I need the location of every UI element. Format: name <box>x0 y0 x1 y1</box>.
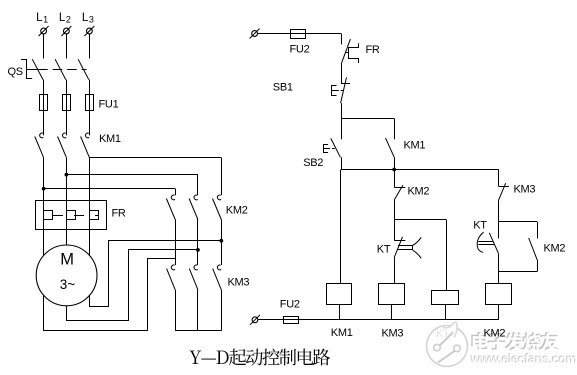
thermal relay FR contact <box>341 39 358 64</box>
label FU2 (top) <box>290 44 310 56</box>
contactor KM2 aux NC contact <box>394 170 405 201</box>
wire SB2 to rail <box>341 157 343 169</box>
node phase2 branch <box>65 173 198 177</box>
svg-text:KM2: KM2 <box>544 243 566 255</box>
contactor KM1 main contact 2 <box>58 133 67 158</box>
label KM3 (NC aux) <box>514 184 536 196</box>
wire KT NC to KM3 coil <box>394 258 396 284</box>
switch QS pole 1 blade <box>32 59 43 79</box>
label KM3 coil <box>382 328 404 340</box>
wire KM2 NC to node B <box>394 200 396 220</box>
coil KT <box>432 291 459 305</box>
label 3~ <box>60 277 76 292</box>
wire FU1 to KM1 pole 1 <box>43 111 45 136</box>
svg-text:FU1: FU1 <box>99 99 119 111</box>
label KT (delayed NC) <box>377 244 391 256</box>
svg-text:KM3: KM3 <box>382 328 404 340</box>
svg-text:FU2: FU2 <box>290 44 310 56</box>
thermal relay FR heater 1 <box>44 210 53 220</box>
terminal L2 <box>59 12 72 36</box>
wire KM3 NC to node C <box>498 200 500 222</box>
wire FR to motor phase2 <box>66 220 68 245</box>
label FR (control) <box>366 44 380 56</box>
label SB2 <box>303 157 323 169</box>
contactor KM2 main contact 1 <box>166 195 175 219</box>
label KM2 (main) <box>226 205 248 217</box>
switch QS bracket <box>21 60 37 79</box>
wire KM3 c3 bottom <box>221 290 223 331</box>
terminal control bottom <box>250 315 260 325</box>
wire bottom rail <box>258 304 499 319</box>
wire star point <box>175 330 221 332</box>
contactor KM3 main contact 1 <box>167 265 176 290</box>
wire L3 to QS <box>89 34 91 58</box>
label KT coil <box>436 328 450 340</box>
coil KM2 <box>486 284 512 305</box>
svg-text:KT: KT <box>377 244 391 256</box>
label KM2 (NC aux) <box>408 186 430 198</box>
contactor KM1 main contact 3 <box>81 133 90 158</box>
wire KM2 aux rejoin <box>499 260 538 272</box>
label FR (main) <box>112 208 126 220</box>
wire KM1 coil feed <box>340 170 342 284</box>
wire FU1 to KM1 pole 3 <box>89 111 91 136</box>
wire control top <box>257 33 341 35</box>
fuse FU2 (top) <box>291 30 306 39</box>
wire motor lead W2 <box>90 241 222 307</box>
wire KM2 c2 to KM3 c2 <box>196 220 200 266</box>
svg-text:L: L <box>59 12 66 24</box>
thermal relay FR box <box>36 201 107 230</box>
contactor KM3 main contact 3 <box>213 265 222 290</box>
fuse FU1 element 1 <box>40 94 48 111</box>
label KM1 (main) <box>99 133 121 145</box>
wire KM2 c3 to KM3 c3 <box>219 220 223 266</box>
svg-text:KM3: KM3 <box>228 277 250 289</box>
coil KM3 <box>379 284 405 305</box>
svg-text:L: L <box>82 12 89 24</box>
wire self-hold branch <box>341 118 395 139</box>
contactor KM3 aux NC contact <box>499 170 509 201</box>
label KM1 (aux) <box>404 140 426 152</box>
wire KM2 c1 to KM3 c1 <box>175 220 177 266</box>
wire phase1 vertical <box>43 158 45 211</box>
wire QS to FU1 pole 2 <box>66 80 68 95</box>
wire KM3 c1 bottom <box>175 290 177 331</box>
svg-text:www.elecfans.com: www.elecfans.com <box>470 353 577 367</box>
watermark elecfans logo and text <box>427 322 577 366</box>
label FU2 (bottom) <box>280 299 300 311</box>
wire rail <box>341 169 499 171</box>
svg-text:KM2: KM2 <box>484 328 506 340</box>
label KT (delayed NO) <box>473 220 487 232</box>
contactor KM2 main contact 3 <box>213 195 222 219</box>
wire KM1 aux to rail <box>394 157 396 169</box>
wire KM3 coil stub <box>391 304 393 319</box>
thermal relay FR heater 3 <box>90 210 99 220</box>
wire QS to FU1 pole 3 <box>89 80 91 95</box>
contactor KM1 main contact 1 <box>35 133 44 158</box>
coil KM1 <box>327 284 352 305</box>
wire KT coil stub <box>445 304 447 319</box>
wire phase3 down to KM2 c3 <box>221 158 223 196</box>
wire phase1 down to KM2 c1 <box>175 189 177 196</box>
svg-text:KM1: KM1 <box>99 133 121 145</box>
svg-text:FR: FR <box>366 44 380 56</box>
fuse FU1 element 3 <box>86 94 94 111</box>
svg-text:1: 1 <box>43 15 48 25</box>
contactor KM3 main contact 2 <box>189 265 198 290</box>
wire phase2 vertical <box>66 158 68 211</box>
wire FR to motor phase3 <box>89 220 91 255</box>
thermal relay FR linkage dashes <box>53 215 98 217</box>
wire motor lead V2 <box>67 250 198 321</box>
label KM2 coil <box>484 328 506 340</box>
svg-text:FR: FR <box>112 208 126 220</box>
wire KM1 coil stub <box>339 304 341 319</box>
wire QS to FU1 pole 1 <box>43 80 45 95</box>
node phase3 branch <box>89 157 221 159</box>
contactor KM2 main contact 2 <box>189 195 198 219</box>
pushbutton SB2 (start, NO) <box>324 118 342 157</box>
svg-text:KM1: KM1 <box>404 140 426 152</box>
wire phase3 vertical <box>89 158 91 211</box>
title text Y-D qidong kongzhi dianlu <box>189 349 330 366</box>
wire FU1 to KM1 pole 2 <box>66 111 68 136</box>
node phase1 branch <box>42 187 176 191</box>
svg-text:M: M <box>60 251 74 269</box>
switch QS linkage dashed line <box>38 69 86 71</box>
svg-text:KM3: KM3 <box>514 184 536 196</box>
svg-text:FU2: FU2 <box>280 299 300 311</box>
terminal L1 <box>36 12 49 36</box>
pushbutton SB1 (stop, NC) <box>331 77 350 103</box>
fuse FU2 (bottom) <box>284 317 299 324</box>
wire FR to motor phase1 <box>43 220 45 256</box>
svg-text:KM1: KM1 <box>331 327 353 339</box>
wire KT NO to KM2 coil <box>498 254 500 284</box>
svg-text:3: 3 <box>89 15 94 25</box>
wire L1 to QS <box>43 34 45 58</box>
time relay KT NC delayed contact <box>394 220 421 259</box>
label KM2 (NO aux) <box>544 243 566 255</box>
svg-text:SB2: SB2 <box>303 157 323 169</box>
label KM3 (main) <box>228 277 250 289</box>
wire KM3 c2 bottom <box>197 290 199 331</box>
thermal relay FR heater 2 <box>67 210 76 220</box>
wire L2 to QS <box>66 34 68 58</box>
fuse FU1 element 2 <box>63 94 71 111</box>
switch QS pole 3 blade <box>78 59 89 79</box>
svg-text:2: 2 <box>66 15 71 25</box>
svg-text:KT: KT <box>473 220 487 232</box>
time relay KT delayed NO contact <box>477 222 498 254</box>
wire phase2 down to KM2 c2 <box>197 175 199 196</box>
svg-text:3~: 3~ <box>60 277 76 292</box>
svg-text:L: L <box>36 12 43 24</box>
svg-text:QS: QS <box>8 66 23 78</box>
contactor KM1 aux contact (self-hold) <box>386 138 395 157</box>
node rail junction <box>392 168 396 172</box>
label SB1 <box>273 82 293 94</box>
svg-text:KM2: KM2 <box>226 205 248 217</box>
label KM1 coil <box>331 327 353 339</box>
svg-text:KM2: KM2 <box>408 186 430 198</box>
label M <box>60 251 74 269</box>
label FU1 <box>99 99 119 111</box>
terminal control top <box>250 29 260 39</box>
svg-text:SB1: SB1 <box>273 82 293 94</box>
switch QS pole 2 blade <box>55 59 66 79</box>
wire motor lead U2 <box>44 259 176 331</box>
wire to FR contact <box>341 34 343 45</box>
motor M circle <box>36 245 97 306</box>
contactor KM2 aux NO contact <box>529 238 538 260</box>
terminal L3 <box>82 12 95 36</box>
wire FR to SB1 <box>341 64 343 83</box>
label QS <box>8 66 23 78</box>
wire KT coil branch <box>394 220 446 291</box>
wire KM2 aux branch <box>499 222 538 239</box>
wire SB1 to junction <box>341 103 343 118</box>
